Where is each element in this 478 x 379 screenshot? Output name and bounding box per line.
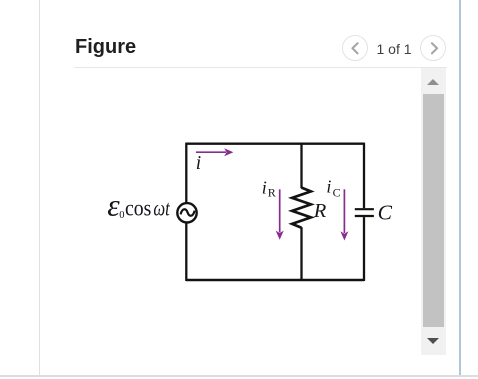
- wire right branch upper (capacitor lead top): [363, 143, 365, 209]
- wire top (node a to node b): [186, 142, 364, 144]
- wire left upper segment: [185, 143, 187, 203]
- wire right branch lower (capacitor lead bottom): [363, 217, 365, 281]
- svg-text:i: i: [262, 177, 267, 197]
- scrollbar up arrow: [427, 79, 439, 85]
- svg-text:0: 0: [119, 210, 124, 221]
- current arrow iC (pointing down): [340, 189, 348, 240]
- wire left lower segment: [185, 223, 187, 281]
- resistor R zigzag: [292, 188, 311, 228]
- capacitor C bottom plate: [355, 215, 374, 217]
- source value label E0 cos wt: [107, 189, 170, 223]
- scrollbar track: [421, 68, 446, 355]
- svg-text:C: C: [333, 186, 341, 200]
- scrollbar down arrow: [427, 338, 439, 344]
- label iR: [262, 177, 276, 199]
- svg-text:R: R: [313, 200, 327, 222]
- ac source V1 circle: [177, 203, 196, 222]
- svg-text:cos: cos: [125, 195, 151, 220]
- left panel border: [39, 0, 40, 375]
- svg-text:C: C: [378, 200, 393, 224]
- Figure heading: [75, 37, 136, 57]
- scrollbar thumb: [423, 94, 444, 327]
- next page button: [420, 35, 446, 61]
- svg-text:i: i: [196, 153, 201, 174]
- current arrow i (top, pointing right): [196, 148, 234, 156]
- ac source sine symbol: [181, 209, 195, 215]
- page counter: [375, 42, 413, 57]
- label iC: [326, 176, 340, 199]
- wire middle branch lower (resistor lead bottom): [300, 227, 302, 281]
- wire bottom: [186, 279, 364, 281]
- capacitor C top plate: [355, 208, 374, 210]
- svg-text:R: R: [268, 186, 276, 200]
- prev page button: [342, 35, 368, 61]
- bottom panel border: [0, 375, 478, 377]
- wire middle branch upper (resistor lead top): [300, 143, 302, 189]
- svg-text:i: i: [326, 176, 331, 196]
- header separator: [74, 67, 447, 68]
- svg-text:ε: ε: [107, 189, 119, 223]
- right blue panel border: [459, 0, 462, 375]
- current arrow iR (pointing down): [276, 189, 284, 240]
- svg-text:ωt: ωt: [153, 195, 170, 220]
